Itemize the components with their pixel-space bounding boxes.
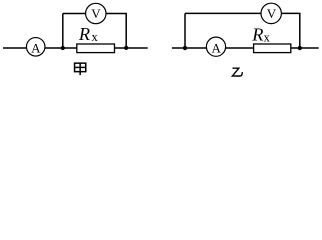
svg-text:R: R [78, 24, 90, 44]
node: right junction dot (circuit 甲) [124, 46, 128, 50]
label 甲 [75, 63, 86, 75]
ammeter A (circuit 乙) [206, 37, 225, 56]
resistor Rx box (circuit 甲) [77, 44, 115, 53]
svg-text:x: x [92, 30, 99, 44]
svg-text:x: x [264, 31, 271, 45]
svg-text:V: V [267, 6, 277, 21]
wire: between ammeter and resistor (circuit 甲) [45, 47, 77, 49]
wire: left vertical riser (circuit 甲) [62, 14, 64, 49]
node: left junction dot (circuit 乙) [183, 46, 187, 50]
wire: resistor to right end (circuit 甲) [115, 47, 148, 49]
wire: voltmeter to right corner and down (circuit 甲) [106, 14, 126, 49]
ammeter A (circuit 甲) [26, 38, 45, 57]
svg-text:A: A [31, 41, 41, 56]
wire: right circuit main line, left segment [172, 47, 207, 49]
wire: ammeter to resistor (circuit 乙) [226, 47, 254, 49]
wire: top horizontal to voltmeter (circuit 乙) [185, 12, 261, 14]
resistor Rx box (circuit 乙) [254, 44, 291, 53]
wire: left circuit main line, left segment [3, 47, 26, 49]
voltmeter V (circuit 乙) [261, 3, 281, 23]
wire: resistor to right end (circuit 乙) [291, 47, 319, 49]
node: right junction dot (circuit 乙) [298, 46, 302, 50]
svg-text:V: V [91, 6, 101, 21]
wire: left vertical riser (circuit 乙) [184, 13, 186, 48]
svg-text:A: A [212, 41, 222, 56]
wire: top horizontal to voltmeter (circuit 甲) [63, 13, 86, 15]
voltmeter V (circuit 甲) [86, 3, 106, 23]
label Rx (circuit 甲) [78, 24, 99, 44]
node: left junction dot (circuit 甲) [61, 46, 65, 50]
svg-text:R: R [251, 25, 263, 45]
label Rx (circuit 乙) [251, 25, 270, 45]
wire: voltmeter to right corner and down (circuit 乙) [281, 13, 299, 48]
label 乙 [232, 68, 242, 76]
